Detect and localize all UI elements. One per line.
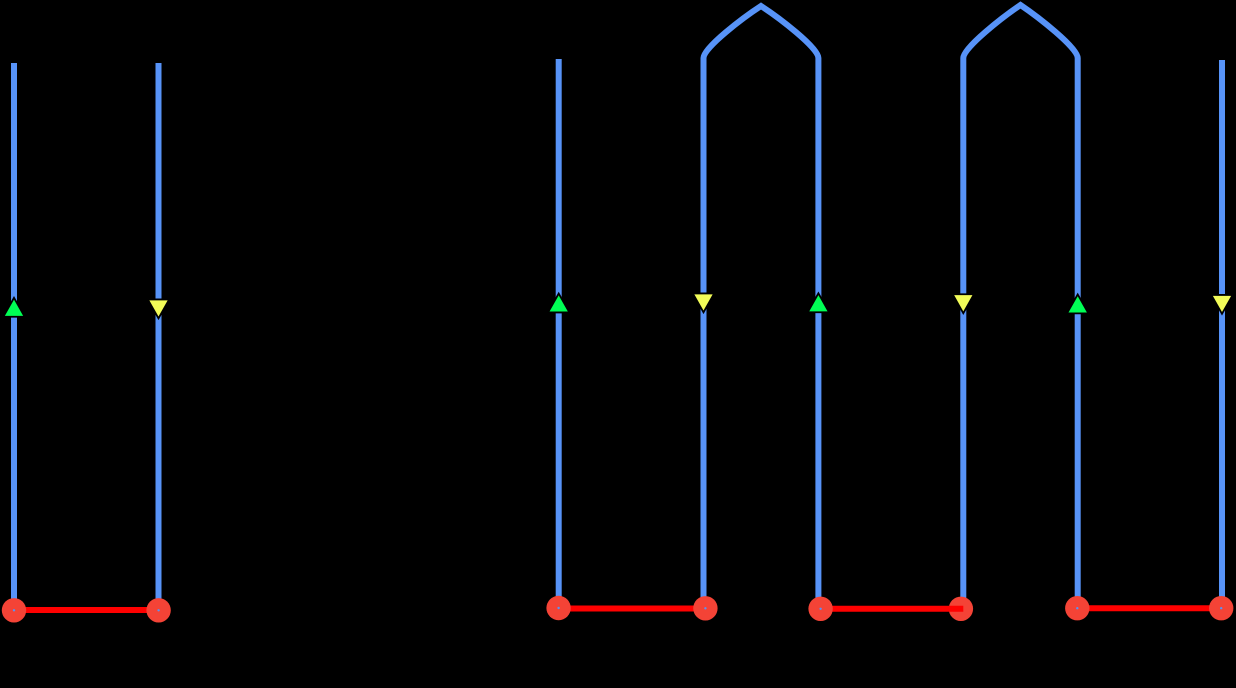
wire: arch 1 (lines 4-5 joined at top) <box>704 6 819 609</box>
node center N3 <box>557 607 559 609</box>
node center N1 <box>13 609 15 611</box>
red segment S2 (bottom join of pair 2) <box>559 606 706 612</box>
node center N7 <box>1076 607 1078 609</box>
wire: flux line 3 (right group, straight up) <box>556 59 562 608</box>
arrow A8 (yellow down, line 8) <box>1211 295 1232 314</box>
pinning dot D6 (drawn under segment S3) <box>949 597 973 621</box>
arrow A1 (green up, line 1) <box>3 298 24 317</box>
arrow A3 (green up, line 3) <box>548 294 569 313</box>
wire: arch 2 (lines 6-7 joined at top) <box>963 5 1077 609</box>
red segment S1 (bottom join of pair 1) <box>14 607 159 613</box>
pinning dot D5 <box>808 597 832 621</box>
pinning dot D4 <box>693 596 717 620</box>
pinning dot D2 <box>146 598 170 622</box>
pinning dot D1 <box>2 598 26 622</box>
node center N6 <box>960 608 962 610</box>
pinning dot D7 <box>1065 596 1089 620</box>
arrow A2 (yellow down, line 2) <box>148 299 169 318</box>
wire: flux line 2 (left pair, down) <box>156 63 162 610</box>
arrow A4 (yellow down, line 4) <box>693 293 714 312</box>
red segment S4 (bottom join of pair 4) <box>1077 605 1221 611</box>
arrow A5 (green up, line 5) <box>808 293 829 312</box>
node center N4 <box>704 607 706 609</box>
wire: flux line 1 (left pair, up) <box>11 63 17 610</box>
pinning dot D3 <box>546 596 570 620</box>
pinning dot D8 <box>1209 596 1233 620</box>
arrow A7 (green up, line 7) <box>1067 294 1088 313</box>
arrow A6 (yellow down, line 6) <box>953 294 974 313</box>
wire: flux line 8 (right group, straight down) <box>1219 60 1225 608</box>
red segment S3 (bottom join of pair 3, over dot D6) <box>821 606 963 612</box>
node center N5 <box>819 608 821 610</box>
node center N2 <box>157 609 159 611</box>
node center N8 <box>1220 607 1222 609</box>
